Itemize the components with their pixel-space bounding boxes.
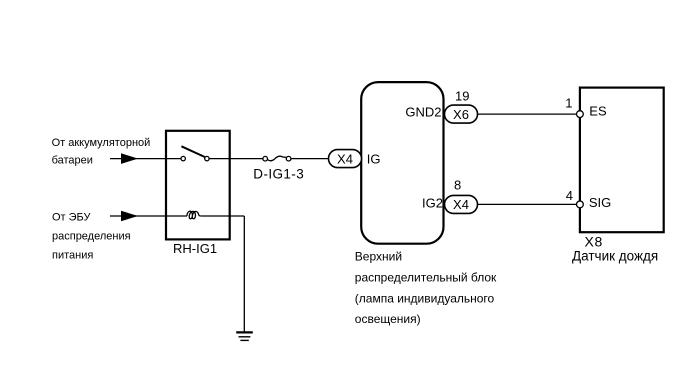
svg-text:X8: X8	[585, 234, 604, 250]
svg-text:4: 4	[566, 188, 573, 203]
svg-text:SIG: SIG	[589, 195, 611, 210]
svg-text:X6: X6	[453, 107, 469, 122]
svg-text:IG: IG	[367, 151, 381, 166]
svg-text:батареи: батареи	[52, 154, 93, 166]
svg-text:GND2: GND2	[405, 105, 441, 120]
svg-text:X4: X4	[453, 197, 469, 212]
svg-text:распределения: распределения	[52, 230, 131, 242]
svg-text:От аккумуляторной: От аккумуляторной	[52, 137, 151, 149]
svg-text:ES: ES	[589, 104, 607, 119]
svg-text:RH-IG1: RH-IG1	[173, 241, 217, 256]
svg-text:Датчик дождя: Датчик дождя	[572, 248, 658, 263]
svg-text:распределительный блок: распределительный блок	[355, 270, 497, 284]
svg-text:От ЭБУ: От ЭБУ	[52, 211, 92, 223]
svg-text:IG2: IG2	[422, 196, 443, 211]
svg-text:Верхний: Верхний	[355, 249, 402, 263]
svg-text:D-IG1-3: D-IG1-3	[253, 167, 304, 182]
svg-text:1: 1	[565, 96, 572, 111]
svg-text:X4: X4	[337, 151, 353, 166]
svg-text:(лампа индивидуального: (лампа индивидуального	[355, 292, 495, 306]
svg-text:8: 8	[454, 177, 461, 192]
svg-text:19: 19	[455, 89, 469, 104]
svg-text:освещения): освещения)	[355, 312, 421, 326]
svg-text:питания: питания	[52, 250, 93, 262]
